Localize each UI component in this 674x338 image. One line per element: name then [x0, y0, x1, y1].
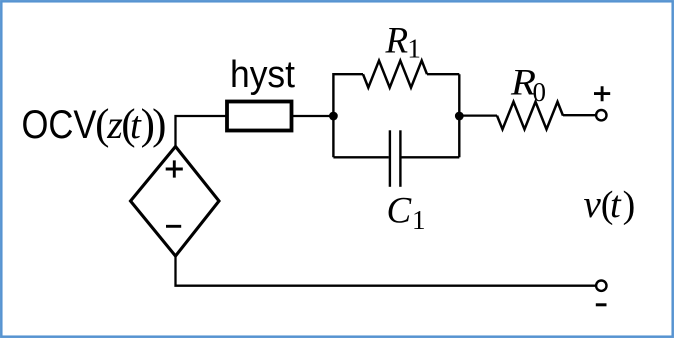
svg-text:R: R [385, 21, 409, 62]
wire: node B to R0 [459, 114, 497, 116]
wire: bottom rail to negative terminal [240, 285, 596, 287]
resistor R0 [497, 102, 563, 130]
svg-text:OCV: OCV [22, 103, 97, 147]
wire: left rail of R1/C1 pair [333, 74, 363, 157]
svg-text:1: 1 [412, 205, 426, 235]
wire: R1 to right rail [427, 73, 459, 75]
dependent source U1: OCV diamond [131, 147, 220, 257]
wire: source bottom to bottom rail [176, 255, 241, 286]
label + (positive terminal polarity) [594, 86, 610, 101]
resistor hyst (box) [227, 102, 292, 131]
label - (source polarity, inside diamond) [166, 225, 181, 228]
svg-text:C: C [387, 191, 413, 232]
wire: R0 to positive terminal [563, 114, 596, 116]
svg-text:t: t [610, 184, 622, 226]
label v(t) [584, 183, 636, 226]
capacitor C1 [333, 130, 459, 187]
positive terminal [596, 110, 606, 120]
svg-text:): ) [152, 101, 166, 148]
svg-text:0: 0 [533, 77, 547, 107]
resistor R1 [363, 61, 427, 88]
svg-text:): ) [623, 184, 636, 226]
wire: right rail of R1/C1 pair [458, 74, 460, 157]
svg-text:v: v [584, 183, 602, 226]
svg-text:hyst: hyst [230, 54, 295, 96]
wire: hyst to node A [293, 115, 333, 117]
wire: OCV node corner to hyst resistor [176, 116, 227, 147]
label - (negative terminal polarity) [596, 303, 607, 306]
negative terminal [596, 281, 606, 291]
node A (left junction dot) [329, 112, 338, 121]
label OCV(z(t)) [22, 101, 167, 148]
label + (source polarity, inside diamond) [166, 160, 183, 177]
svg-text:1: 1 [407, 34, 421, 64]
node B (right junction dot) [455, 112, 464, 121]
